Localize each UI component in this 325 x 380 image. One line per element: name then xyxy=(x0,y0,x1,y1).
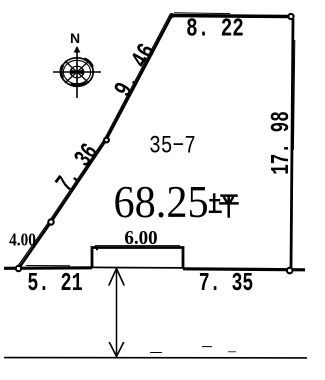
vertex marker on diagonal (4.00/7.36 junction) xyxy=(48,219,53,224)
label 9.46 xyxy=(109,39,163,103)
setback dimension double arrow xyxy=(109,269,124,357)
corner blob at top-left vertex xyxy=(170,13,175,18)
svg-text:4.00: 4.00 xyxy=(9,229,36,249)
boundary: diagonal 7.36 segment xyxy=(50,139,107,222)
vertex marker on diagonal (7.36/9.46 junction) xyxy=(104,138,109,143)
svg-text:8. 22: 8. 22 xyxy=(186,14,244,44)
lot number 35-7 xyxy=(149,131,196,160)
vertex marker bottom-right xyxy=(287,268,293,274)
boundary: bottom-right edge (7.35) xyxy=(183,269,305,270)
label 17.98 xyxy=(266,111,296,175)
svg-text:7. 35: 7. 35 xyxy=(199,268,254,298)
label 7.35 xyxy=(199,268,254,298)
svg-text:68.25: 68.25 xyxy=(114,176,209,227)
boundary: diagonal 4.00 segment xyxy=(18,221,52,268)
svg-text:N: N xyxy=(70,30,80,46)
scan speckles xyxy=(96,247,236,353)
label 4.00 xyxy=(9,229,36,249)
vertex marker bottom-left xyxy=(16,266,21,271)
svg-text:17. 98: 17. 98 xyxy=(266,111,296,175)
area unit tsubo (drawn glyph) xyxy=(210,195,238,217)
compass rose xyxy=(53,30,101,98)
label 5.21 xyxy=(27,268,82,298)
label 8.22 xyxy=(186,14,244,44)
svg-text:7. 36: 7. 36 xyxy=(51,139,106,198)
vertex marker top-right xyxy=(288,14,293,19)
label 7.36 xyxy=(51,139,106,198)
road edge line xyxy=(4,357,307,359)
svg-text:6.00: 6.00 xyxy=(124,228,157,250)
svg-text:5. 21: 5. 21 xyxy=(27,268,82,298)
area value 68.25 xyxy=(114,176,209,227)
boundary: notch step (6.00 setback) xyxy=(92,246,183,269)
boundary: top edge (8.22) xyxy=(172,13,288,17)
svg-text:35−7: 35−7 xyxy=(149,131,196,160)
label 6.00 xyxy=(124,228,157,250)
road frontage line under notch xyxy=(92,266,183,269)
boundary: bottom-left edge (5.21) xyxy=(4,266,92,269)
boundary: diagonal 9.46 segment xyxy=(105,14,173,141)
boundary: right edge (17.98) xyxy=(291,19,295,268)
